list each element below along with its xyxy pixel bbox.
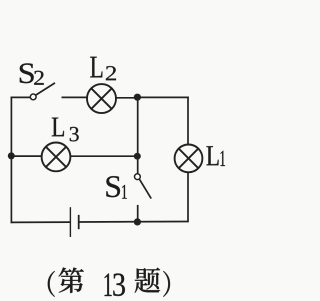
wire bottom left: [11, 221, 71, 223]
caption open paren （: [48, 271, 55, 297]
wire L3 row left: [11, 155, 42, 157]
wire L3 row right: [70, 155, 138, 157]
node B (left rail / L3): [8, 152, 15, 159]
wire node A to top-right corner: [137, 96, 189, 98]
switch S2: [30, 83, 55, 100]
lamp L1: [175, 145, 203, 173]
lamp L3: [42, 143, 71, 172]
label S2: [20, 63, 44, 84]
caption digit 3: [113, 274, 125, 297]
switch S1: [135, 174, 152, 199]
wire left rail: [10, 97, 12, 224]
caption 题: [135, 268, 160, 293]
label L3: [52, 118, 79, 142]
caption close paren ）: [163, 271, 170, 297]
battery: [70, 207, 78, 237]
caption 第: [59, 268, 84, 294]
wire L2 to node A: [116, 97, 138, 99]
label L1: [207, 146, 226, 166]
label S1: [106, 176, 126, 199]
wire right rail lower: [187, 172, 189, 222]
wire middle rail: [137, 98, 139, 174]
lamp L2: [87, 84, 116, 113]
node A (L2 / middle rail): [134, 94, 141, 101]
node D (S1 / bottom wire): [134, 218, 141, 225]
label L2: [90, 57, 116, 80]
wire top-left to S2: [11, 96, 30, 98]
wire right rail upper: [187, 97, 189, 145]
node C (L3 / middle rail): [134, 153, 141, 160]
wire S1 to bottom: [137, 205, 139, 223]
wire bottom right: [79, 221, 188, 224]
wire S2 to L2: [62, 96, 88, 98]
caption digit 1: [105, 274, 112, 297]
